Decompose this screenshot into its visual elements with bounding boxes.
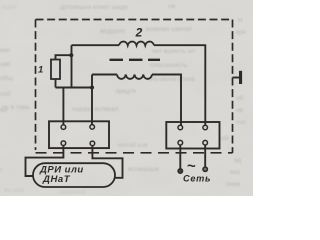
svg-text:ДНаТ: ДНаТ <box>42 174 71 185</box>
svg-text:нлтой сов: нлтой сов <box>118 141 148 149</box>
svg-text:1: 1 <box>38 64 43 75</box>
wire: node B up to lower winding, down to left block terminal 2 <box>91 75 93 126</box>
wire: top horizontal to winding <box>72 44 120 46</box>
svg-text:общ: общ <box>0 74 13 82</box>
node B junction dot <box>90 85 94 89</box>
inductor winding 2 (bottom, humps down) <box>117 75 152 79</box>
svg-text:вд: вд <box>234 157 241 164</box>
wire: lamp left lead <box>26 146 64 177</box>
svg-text:об: об <box>236 94 244 102</box>
mains connection point 2 <box>203 167 207 171</box>
wire: mains lead 2 <box>204 145 206 168</box>
svg-text:вз шнз: вз шнз <box>4 187 24 194</box>
svg-text:нь в терь: нь в терь <box>2 104 30 111</box>
inductor winding 2 (top, humps up) <box>119 42 154 46</box>
svg-text:поразл вствкал: поразл вствкал <box>72 106 118 113</box>
mains connection point 1 <box>178 169 182 173</box>
right block terminals <box>178 125 208 145</box>
border bottom <box>36 152 233 154</box>
wire: lower horizontal node bar <box>56 87 93 89</box>
wire: mains lead 1 <box>179 145 181 169</box>
transformer core (dashed line) <box>110 59 161 61</box>
svg-text:снев: снев <box>226 181 240 188</box>
wire: lower winding lead-in <box>92 74 117 76</box>
node A junction dot <box>69 53 73 57</box>
svg-text:кредте: кредте <box>116 88 137 95</box>
svg-text:его свота стела: его свота стела <box>148 76 195 83</box>
wire: resistor bottom down <box>55 79 57 88</box>
svg-text:нет вшесть нл: нет вшесть нл <box>152 48 195 55</box>
border top <box>36 19 233 21</box>
svg-text:нв: нв <box>168 3 176 10</box>
left block terminals <box>61 125 95 146</box>
wire: lamp right lead <box>92 146 122 178</box>
svg-text:дотоюшна клаот шеде: дотоюшна клаот шеде <box>60 4 128 11</box>
wire: down to left block terminal 1 <box>62 88 64 126</box>
svg-text:Сеть: Сеть <box>183 173 211 183</box>
svg-text:зае: зае <box>0 61 11 68</box>
svg-text:всоешзше: всоешзше <box>128 166 159 173</box>
dashed enclosure border <box>36 20 233 154</box>
svg-text:вознпех саплят: вознпех саплят <box>146 26 192 33</box>
svg-text:гол: гол <box>236 119 246 126</box>
faint bleed-through text <box>0 3 246 196</box>
lamp label <box>39 165 84 185</box>
wire: lower winding to right block <box>152 75 181 126</box>
left terminal block <box>49 121 109 148</box>
wire: vertical A from top wire to lower node <box>71 45 73 87</box>
paper background <box>0 0 253 196</box>
svg-text:крн: крн <box>236 29 246 36</box>
right terminal block <box>166 122 219 149</box>
case terminal bar <box>239 71 242 84</box>
svg-text:идеи: идеи <box>2 4 17 11</box>
svg-text:ведшотс: ведшотс <box>100 28 126 35</box>
svg-text:спосооснсть: спосооснсть <box>150 62 188 69</box>
svg-text:т: т <box>0 167 3 174</box>
case terminal on right edge <box>233 77 240 79</box>
border left <box>35 20 37 151</box>
svg-text:шй: шй <box>220 134 229 142</box>
wire: top horizontal after winding, down right side <box>154 45 205 125</box>
svg-text:маг: маг <box>0 47 11 54</box>
resistor 1 <box>51 60 60 80</box>
svg-text:мог: мог <box>230 169 241 176</box>
border right <box>232 20 234 154</box>
svg-text:2: 2 <box>135 26 143 40</box>
svg-text:нв: нв <box>236 107 244 114</box>
svg-text:овмpreей: овмpreей <box>58 188 86 196</box>
svg-text:ki: ki <box>238 17 243 24</box>
wire: to resistor top <box>56 55 72 59</box>
lamp DRI/DNaT (stadium) <box>33 163 115 187</box>
svg-text:~: ~ <box>187 158 196 175</box>
svg-text:поб: поб <box>0 90 11 98</box>
